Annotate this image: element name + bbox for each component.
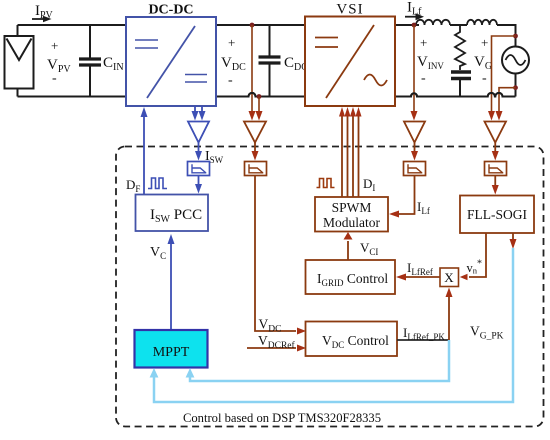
inductor coil 2 xyxy=(467,20,497,25)
svg-text:+: + xyxy=(420,35,427,50)
capacitor C_DC xyxy=(259,25,281,97)
svg-text:+: + xyxy=(228,35,235,50)
node I_Lf top rail xyxy=(412,23,417,28)
pwm waveform glyph red xyxy=(317,179,335,188)
wire bottom rail PV to DC-DC xyxy=(18,96,127,98)
block FLL-SOGI xyxy=(460,196,534,234)
arrow triangle to filter xyxy=(198,143,200,153)
filter block V_G xyxy=(485,162,507,176)
wire D_F blue PCC to DC-DC xyxy=(143,116,145,195)
svg-text:-: - xyxy=(228,73,233,88)
svg-text:X: X xyxy=(444,270,454,285)
AC grid source xyxy=(502,47,529,74)
arrow filter to PCC xyxy=(198,176,200,186)
sensor triangle V_G xyxy=(485,122,507,143)
VSI inverter block xyxy=(305,17,395,107)
arrow triangle to filter xyxy=(254,143,256,153)
block I_SW PCC xyxy=(136,195,209,232)
svg-text:-: - xyxy=(421,71,426,86)
arrow filter to FLL-SOGI xyxy=(494,176,496,187)
block SPWM Modulator xyxy=(315,197,388,232)
wire top rail PV to DC-DC xyxy=(18,24,127,26)
svg-text:-: - xyxy=(482,71,487,86)
multiplier X xyxy=(440,268,459,287)
wire I_Lf filter to SPWM xyxy=(398,176,415,215)
svg-text:Control based on DSP TMS320F28: Control based on DSP TMS320F28335 xyxy=(183,411,381,425)
wire between coils xyxy=(450,24,467,26)
inductor Lf coil 1 xyxy=(416,20,450,25)
resistor damping (vertical zigzag) xyxy=(455,25,465,70)
block I_GRID Control xyxy=(306,260,396,294)
svg-text:MPPT: MPPT xyxy=(153,345,190,360)
filter block I_SW xyxy=(188,162,210,176)
svg-text:DC-DC: DC-DC xyxy=(148,3,193,18)
wire V_DC- sense down xyxy=(258,97,260,113)
capacitor C_IN xyxy=(79,25,101,97)
wire hop overlays on bottom rail xyxy=(249,93,256,97)
wire V_CI I_GRID to SPWM xyxy=(347,241,349,260)
wire bottom rail DC-DC to VSI with hop at 252 xyxy=(216,93,305,97)
sensor triangle V_DC xyxy=(244,122,266,143)
node V_G- xyxy=(513,85,518,90)
block V_DC Control xyxy=(306,322,398,357)
svg-text:-: - xyxy=(52,71,57,86)
svg-text:SPWM: SPWM xyxy=(332,200,372,215)
wire cyan I_LfRef_PK to MPPT xyxy=(190,340,449,381)
wire top rail DC-DC to VSI xyxy=(216,24,305,26)
wire V_DC filter down to V_DC Control xyxy=(255,176,296,332)
wire bottom rail VSI to grid with hops at 414, 491.5, 499 xyxy=(395,93,516,97)
wire V_G_PK cyan to MPPT xyxy=(154,248,513,402)
svg-text:Modulator: Modulator xyxy=(323,215,380,230)
block MPPT xyxy=(135,330,208,368)
node V_G+ xyxy=(513,34,518,39)
PV panel symbol xyxy=(5,25,34,97)
wire grid source bottom xyxy=(515,74,517,97)
svg-text:FLL-SOGI: FLL-SOGI xyxy=(467,207,528,222)
capacitor filter xyxy=(451,72,471,97)
DC-DC converter block xyxy=(126,17,216,106)
wire coil2 to grid source xyxy=(497,25,516,47)
svg-text:VSI: VSI xyxy=(336,2,363,18)
wire I_Lf sense down xyxy=(413,25,415,112)
node V_DC- bottom rail xyxy=(257,94,262,99)
control box dashed border xyxy=(116,147,544,427)
wire V_G+ sense xyxy=(492,36,516,112)
sensor triangle I_SW xyxy=(188,122,209,143)
pwm waveform glyph blue xyxy=(148,178,167,189)
sensor triangle I_Lf xyxy=(404,122,425,143)
svg-text:+: + xyxy=(51,38,58,53)
wire v_n* FLL-SOGI to X xyxy=(469,233,486,277)
wire I_LfRef X to I_GRID Control xyxy=(405,276,440,278)
wire V_DCRef input xyxy=(247,347,296,349)
filter block V_DC xyxy=(245,162,267,176)
arrow triangle to filter xyxy=(414,143,416,153)
arrow I_Lf xyxy=(405,16,416,18)
wire V_G_PK FLL-SOGI down (brown arrow) xyxy=(512,233,514,240)
wire top rail VSI to inductor xyxy=(395,24,419,26)
arrows SPWM to VSI xyxy=(342,114,359,197)
wire V_C MPPT to PCC xyxy=(170,243,172,330)
node V_DC top rail xyxy=(250,23,255,28)
wires I_SW sensor from DC-DC xyxy=(195,106,202,112)
arrow triangle to filter xyxy=(494,143,496,153)
wire I_LfRef_PK V_DC Control to X and MPPT xyxy=(397,339,449,341)
wire V_DC+ sense down xyxy=(251,25,253,112)
wire up to X xyxy=(448,296,450,340)
svg-text:+: + xyxy=(481,35,488,50)
filter block I_Lf xyxy=(404,162,426,176)
wire V_G- sense xyxy=(499,88,516,112)
arrow I_PV xyxy=(32,18,44,20)
